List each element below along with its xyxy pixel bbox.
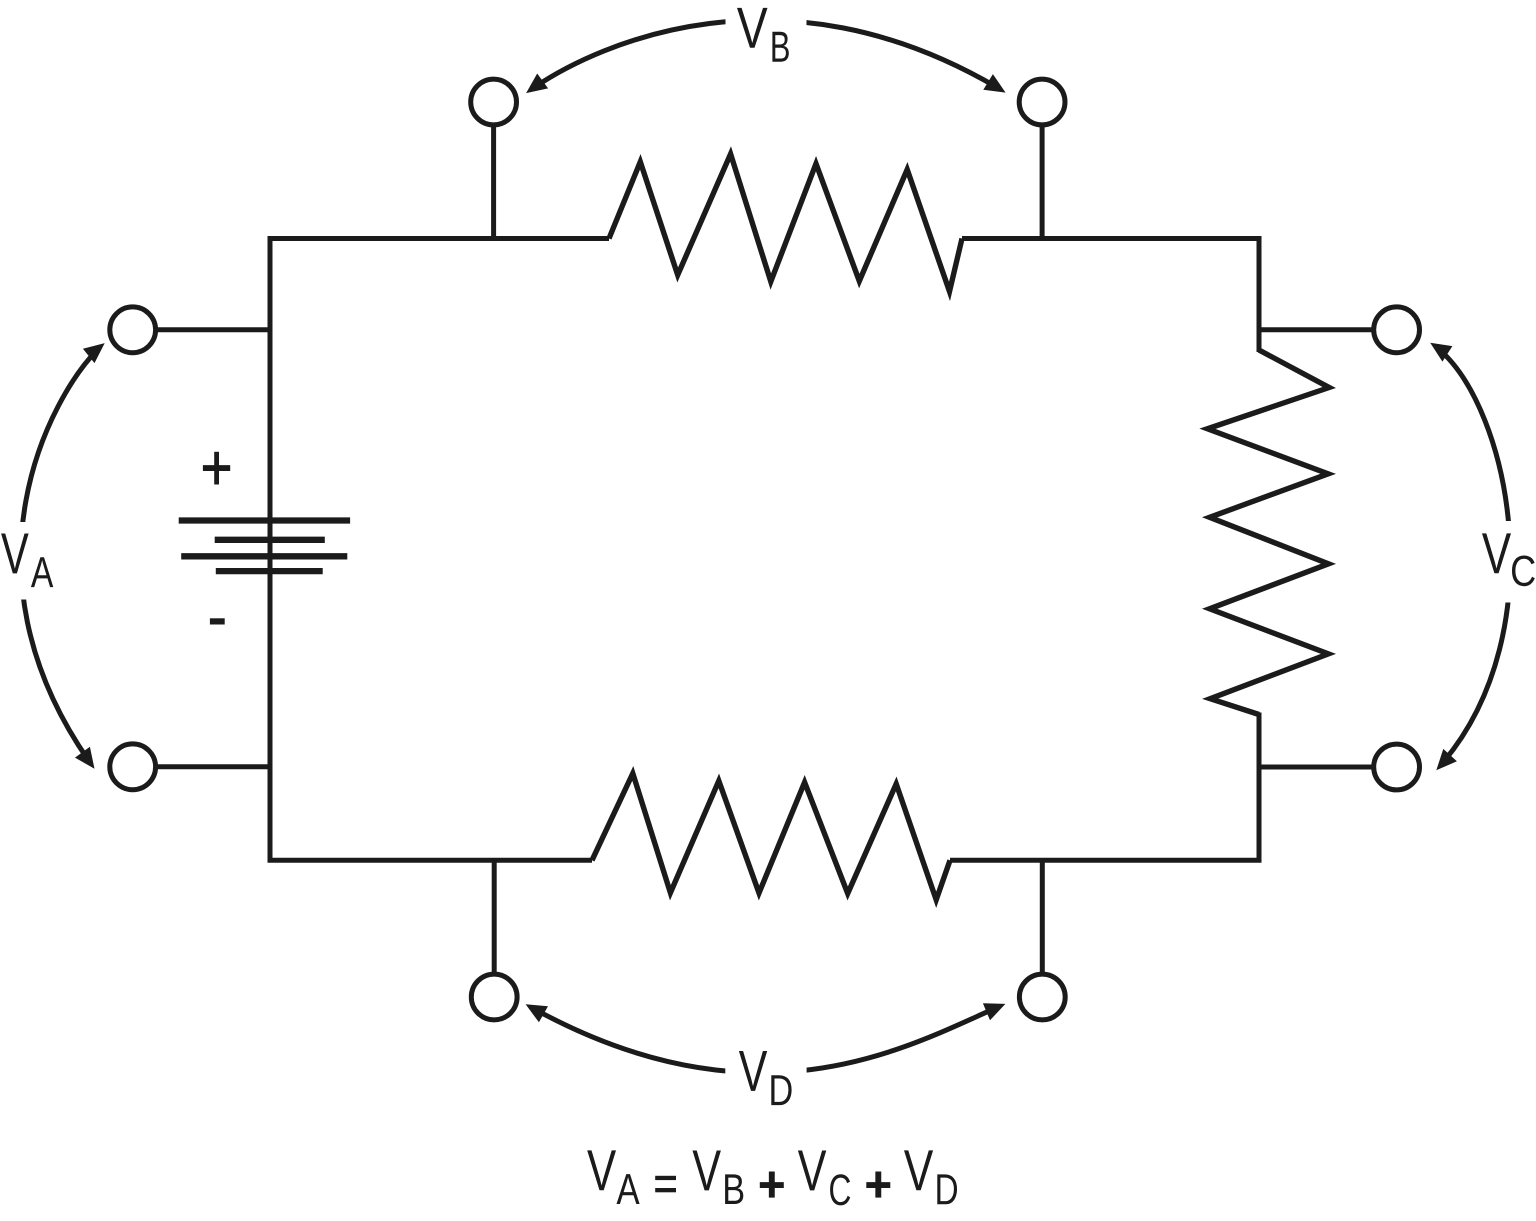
label V_D [739,1051,767,1091]
label V_B [737,8,768,48]
arrowhead V_C upper [1430,343,1452,362]
battery + polarity [203,452,230,485]
wire: stem to top-left terminal [491,125,496,239]
arrowhead V_A lower [75,747,95,769]
arrowhead V_A upper [83,343,105,363]
battery - polarity [210,618,225,624]
terminal top-right [1019,79,1065,125]
wire: stem to right-lower terminal [1259,765,1374,770]
arrowhead V_D left [526,1004,548,1022]
equation = sign [655,1176,676,1193]
terminal right-lower [1374,744,1420,790]
wire: stem to top-right terminal [1040,125,1045,239]
equation V_A = V_B + V_C + V_D [587,1150,616,1190]
resistor right (V_C) [1207,350,1329,715]
arrow arc V_B [534,20,996,87]
terminal bottom-left [471,974,517,1020]
wire: stem to bottom-right terminal [1040,860,1045,974]
arrowhead V_B left [526,74,548,94]
arrowhead V_B right [983,74,1005,93]
terminal left-lower [110,744,156,790]
battery plates [179,521,350,572]
arrowhead V_D right [983,1003,1006,1020]
wire: top-right corner of loop [962,239,1259,353]
label V_A [1,534,29,574]
terminal top-left [471,79,517,125]
terminal right-upper [1374,307,1420,353]
arrow arc V_A [21,350,97,760]
resistor bottom (V_D) [592,773,950,899]
wire: top-left + left + bottom-left sides of loop [270,239,609,861]
terminal left-upper [110,307,156,353]
wire: bottom-right corner of loop [950,713,1259,861]
wire: stem to left-lower terminal [156,764,270,769]
arrowhead V_C lower [1436,749,1457,770]
wire: stem to right-upper terminal [1259,327,1374,332]
equation + signs [760,1172,891,1198]
arrow arc V_D [535,1008,995,1073]
label V_C [1482,533,1511,573]
wire: stem to left-upper terminal [156,327,270,332]
arrow arc V_C [1439,349,1511,762]
resistor top (V_B) [609,154,962,292]
terminal bottom-right [1019,974,1065,1020]
wire: stem to bottom-left terminal [492,860,497,974]
